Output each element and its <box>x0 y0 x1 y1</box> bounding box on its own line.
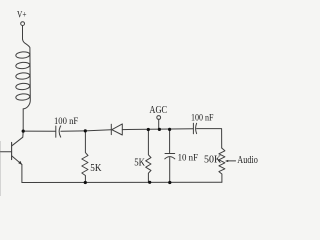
wire AGC terminal to rail <box>158 119 160 129</box>
potentiometer R3 50K <box>219 148 225 182</box>
diode D1 <box>111 124 122 135</box>
R3 wiper arrow to Audio <box>227 160 236 162</box>
wire C3 to potentiometer R3 <box>197 129 222 148</box>
resistor R1 5K <box>82 131 88 182</box>
transistor Q1 <box>12 131 24 182</box>
capacitor C2 10 nF <box>165 130 175 183</box>
page edge shading (left) <box>0 141 1 196</box>
wire node B to diode D1 <box>85 130 111 131</box>
wire C1 to node B <box>61 130 85 132</box>
svg-text:100 nF: 100 nF <box>191 112 214 123</box>
node A junction dot <box>22 130 25 133</box>
svg-text:Audio: Audio <box>237 155 257 166</box>
svg-text:5K: 5K <box>134 157 145 168</box>
junction dot C2 bottom <box>168 181 171 184</box>
capacitor C3 100 nF <box>193 123 196 133</box>
junction dot AGC stem <box>158 128 161 131</box>
svg-text:5K: 5K <box>90 163 102 174</box>
resistor R2 5K <box>146 130 151 183</box>
wire node A to capacitor C1 <box>23 130 55 132</box>
wire V+ terminal to inductor <box>22 26 24 40</box>
inductor L1 <box>16 39 31 109</box>
V+ terminal <box>21 22 25 26</box>
svg-text:100 nF: 100 nF <box>54 116 79 127</box>
wire D1 to AGC node and C3 <box>122 128 193 131</box>
junction dot R1 bottom <box>84 181 87 184</box>
transistor Q1 base lead <box>1 151 12 153</box>
junction dot R2 bottom <box>148 181 151 184</box>
AGC terminal <box>157 116 161 120</box>
svg-text:50K: 50K <box>204 154 222 165</box>
ground rail wire (bottom) <box>22 181 222 183</box>
transistor Q1 emitter arrowhead <box>18 161 22 165</box>
capacitor C1 100 nF <box>56 126 61 137</box>
R3 wiper arrowhead <box>225 160 228 162</box>
node B junction dot <box>84 129 87 132</box>
wire inductor to node A <box>22 109 24 131</box>
junction dot R2 top <box>147 128 150 131</box>
svg-text:AGC: AGC <box>149 105 167 116</box>
svg-text:V+: V+ <box>17 10 27 20</box>
svg-text:10 nF: 10 nF <box>178 153 199 164</box>
junction dot C2 top <box>168 128 171 131</box>
